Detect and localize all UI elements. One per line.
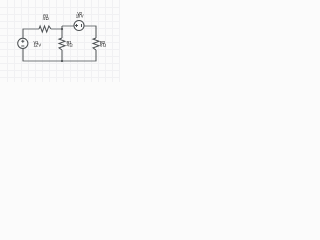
resistor R2 zigzag (93, 38, 99, 50)
wire R1 bottom lead (61, 50, 63, 61)
svg-text:4 Ω: 4 Ω (43, 16, 49, 21)
wire riser junction to V2 level (61, 26, 63, 30)
voltage source V2 circle (74, 20, 84, 30)
svg-text:8 Ω: 8 Ω (100, 43, 106, 48)
V1 plus sign (21, 40, 24, 43)
resistor R1 zigzag (59, 38, 65, 50)
V1 minus sign (21, 45, 24, 47)
wire V1 bottom lead (22, 48, 24, 61)
wire R2 top lead (95, 26, 97, 38)
voltage source V1 circle (18, 38, 28, 48)
wire R2 bottom lead (95, 50, 97, 61)
wire V2 branch right horizontal (84, 25, 97, 27)
svg-text:18 V: 18 V (76, 14, 84, 19)
background (0, 0, 120, 82)
svg-text:12 V: 12 V (34, 43, 42, 48)
bottom rail wire (23, 60, 97, 62)
svg-text:4 Ω: 4 Ω (67, 43, 73, 48)
wire V1 top lead (22, 29, 24, 38)
V2 plus sign (75, 24, 78, 27)
wire R1 top lead (61, 29, 63, 38)
junction node at bottom of R1 (61, 60, 63, 62)
wire top rail right of R3 (51, 28, 62, 30)
wire top rail left segment (23, 28, 40, 30)
V2 minus (rotated bar) (81, 24, 83, 27)
wire V2 branch left horizontal (62, 25, 74, 27)
grid (decorative) (0, 0, 120, 82)
resistor R3 zigzag (39, 26, 51, 32)
junction node at top of R1 (61, 28, 63, 30)
